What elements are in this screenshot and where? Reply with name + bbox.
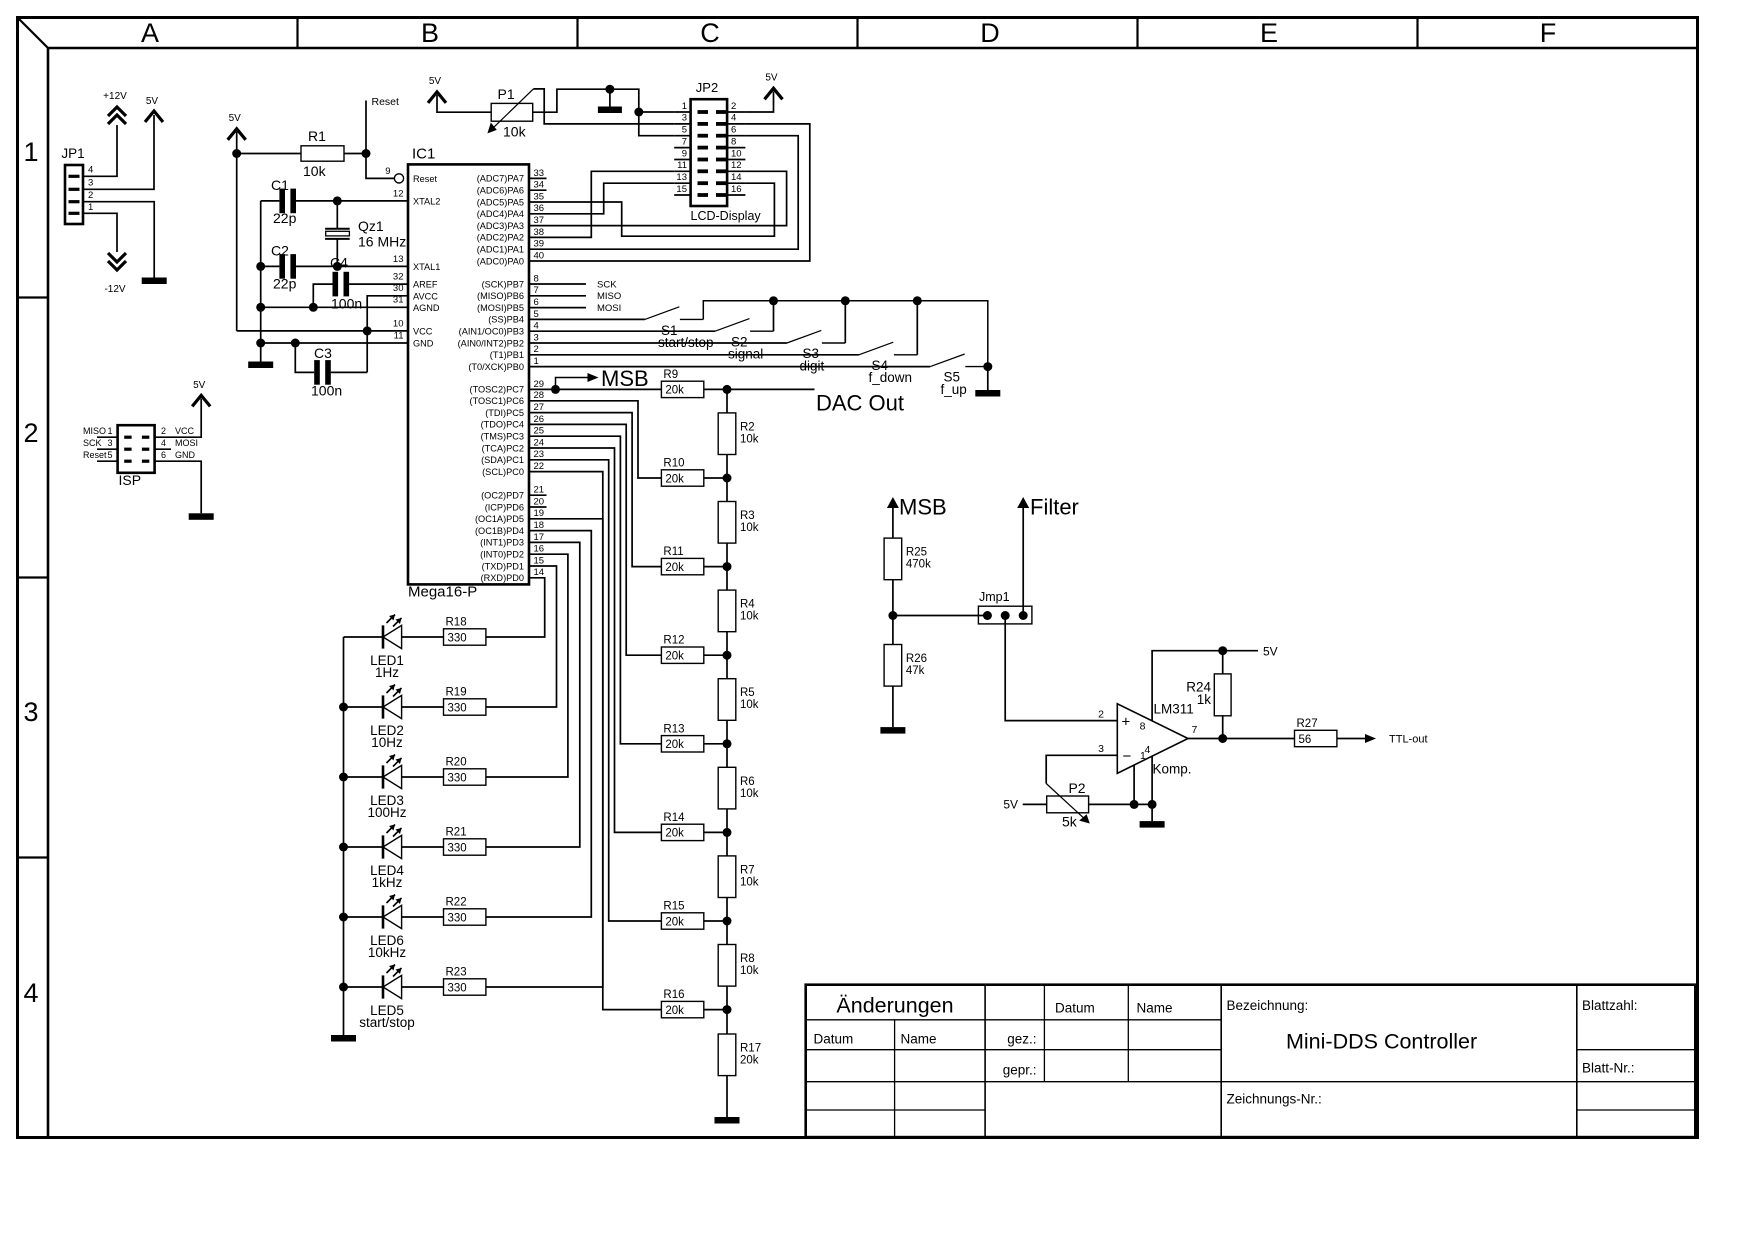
svg-text:6: 6 xyxy=(161,450,166,460)
connector JP1 xyxy=(65,165,83,224)
svg-text:330: 330 xyxy=(448,982,467,994)
wire PC3 to R13 xyxy=(529,436,661,744)
svg-text:24: 24 xyxy=(534,437,545,448)
svg-text:100Hz: 100Hz xyxy=(367,805,406,820)
svg-text:R21: R21 xyxy=(446,827,467,839)
svg-text:SCK: SCK xyxy=(597,279,617,290)
wire PB2 to S3 xyxy=(529,342,787,344)
wire S4 to bus xyxy=(916,301,918,355)
svg-text:14: 14 xyxy=(731,172,742,183)
wire Jmp1 pin2 to comparator + xyxy=(1005,616,1117,721)
node R1 left xyxy=(232,149,241,158)
svg-text:R12: R12 xyxy=(663,635,684,647)
svg-text:40: 40 xyxy=(534,250,545,261)
svg-text:VCC: VCC xyxy=(175,426,195,436)
svg-text:19: 19 xyxy=(534,508,545,519)
net arrow MSB right xyxy=(887,497,899,508)
svg-text:4: 4 xyxy=(88,165,93,176)
svg-text:A: A xyxy=(141,18,159,48)
svg-text:12: 12 xyxy=(731,160,742,171)
svg-text:Änderungen: Änderungen xyxy=(836,994,953,1018)
svg-text:20k: 20k xyxy=(665,651,684,663)
wire PC4 to R12 xyxy=(529,424,661,655)
svg-text:330: 330 xyxy=(448,632,467,644)
svg-text:10k: 10k xyxy=(740,876,759,888)
resistor R10 20k xyxy=(661,470,703,486)
wire R26 to ground xyxy=(892,686,894,727)
svg-text:6: 6 xyxy=(731,125,736,136)
wire R25 to node xyxy=(892,580,894,616)
svg-text:TTL-out: TTL-out xyxy=(1389,734,1428,746)
svg-text:+12V: +12V xyxy=(103,91,127,102)
wire PB4 to S1 xyxy=(529,318,645,320)
svg-text:1k: 1k xyxy=(1197,692,1212,707)
potentiometer P1 10k xyxy=(491,103,533,121)
svg-text:AVCC: AVCC xyxy=(413,291,438,301)
svg-text:(ADC6)PA6: (ADC6)PA6 xyxy=(477,186,524,196)
svg-text:1Hz: 1Hz xyxy=(375,665,399,680)
svg-text:7: 7 xyxy=(1192,724,1198,736)
svg-text:R16: R16 xyxy=(663,989,684,1001)
wire R27 to TTL-out xyxy=(1337,738,1365,740)
svg-text:XTAL1: XTAL1 xyxy=(413,262,440,272)
svg-text:AGND: AGND xyxy=(413,303,440,313)
svg-text:Datum: Datum xyxy=(814,1032,854,1047)
resistor R27 56 xyxy=(1295,730,1337,746)
svg-text:+: + xyxy=(1122,714,1131,731)
svg-text:3: 3 xyxy=(534,332,539,343)
svg-text:5V: 5V xyxy=(193,380,206,391)
wire 5V to P1 xyxy=(437,95,491,112)
svg-text:2: 2 xyxy=(731,101,736,112)
svg-text:(TXD)PD1: (TXD)PD1 xyxy=(482,561,524,571)
LED LED6 10kHz xyxy=(344,916,384,918)
svg-text:18: 18 xyxy=(534,520,545,531)
svg-text:C1: C1 xyxy=(271,177,289,193)
wire PC2 to R14 xyxy=(529,448,661,832)
wire R13 to ladder xyxy=(704,743,727,745)
node S5 xyxy=(983,362,992,371)
LED LED3 100Hz xyxy=(344,776,384,778)
svg-text:20: 20 xyxy=(534,496,545,507)
node ladder tap 0 xyxy=(723,385,732,394)
node ladder tap 6 xyxy=(723,917,732,926)
wire R15 to ladder xyxy=(704,920,727,922)
svg-text:gez.:: gez.: xyxy=(1007,1032,1036,1047)
svg-text:6: 6 xyxy=(534,297,539,308)
svg-text:20k: 20k xyxy=(665,562,684,574)
resistor R25 470k xyxy=(884,538,902,580)
svg-text:10: 10 xyxy=(393,318,404,329)
svg-text:B: B xyxy=(421,18,439,48)
wire PA5 to JP2 pin14 xyxy=(529,183,774,236)
svg-text:(TDI)PC5: (TDI)PC5 xyxy=(485,408,524,418)
net label Reset wire xyxy=(365,101,367,154)
svg-text:3: 3 xyxy=(88,178,93,189)
svg-text:34: 34 xyxy=(534,180,545,191)
svg-text:F: F xyxy=(1540,18,1557,48)
wire comparator pin8 to 5V xyxy=(1152,651,1258,721)
svg-text:R9: R9 xyxy=(663,369,678,381)
svg-text:14: 14 xyxy=(534,567,545,578)
svg-text:(T1)PB1: (T1)PB1 xyxy=(490,350,524,360)
svg-text:(ICP)PD6: (ICP)PD6 xyxy=(485,502,524,512)
wire R17 to ground xyxy=(726,1076,728,1117)
wire node to Jmp1 xyxy=(893,615,988,617)
wire to ground comparator xyxy=(1151,804,1153,821)
node ladder tap 2 xyxy=(723,562,732,571)
svg-text:(AIN1/OC0)PB3: (AIN1/OC0)PB3 xyxy=(459,327,524,337)
node VCC AVCC xyxy=(363,326,372,335)
node XTAL1 xyxy=(333,262,342,271)
svg-text:(RXD)PD0: (RXD)PD0 xyxy=(481,573,524,583)
switch S5 f_up xyxy=(930,354,964,367)
svg-text:MISO: MISO xyxy=(597,291,621,302)
svg-text:56: 56 xyxy=(1299,734,1312,746)
wire PA3 to JP2 pin12 xyxy=(529,171,787,225)
svg-text:10: 10 xyxy=(731,148,742,159)
wire S2 to bus xyxy=(773,301,775,331)
capacitor C3 100n xyxy=(295,343,314,372)
wire reset node to IC reset pin xyxy=(366,154,394,179)
svg-text:C2: C2 xyxy=(271,243,289,259)
node PC7 MSB xyxy=(551,385,560,394)
svg-text:(ADC2)PA2: (ADC2)PA2 xyxy=(477,233,524,243)
svg-text:5V: 5V xyxy=(1263,644,1278,658)
svg-text:15: 15 xyxy=(676,184,687,195)
resistor R19 330 xyxy=(402,706,444,708)
wire PB0 to S5 xyxy=(529,366,930,368)
svg-text:4: 4 xyxy=(731,113,736,124)
svg-text:5: 5 xyxy=(682,125,687,136)
switch S2 signal xyxy=(715,319,749,332)
svg-text:R6: R6 xyxy=(740,776,755,788)
svg-text:39: 39 xyxy=(534,239,545,250)
wire PA4 to JP2 pin13 xyxy=(529,183,674,214)
node LED bus xyxy=(339,703,348,712)
wire P2 to gnd nodes xyxy=(1089,803,1153,805)
svg-text:MOSI: MOSI xyxy=(175,438,198,448)
switch S1 start/stop xyxy=(645,307,679,320)
svg-text:4: 4 xyxy=(1145,744,1151,756)
svg-text:R7: R7 xyxy=(740,864,755,876)
wire 5V to R1 and VCC bus xyxy=(236,132,238,331)
5V symbol at P1 xyxy=(428,92,446,103)
svg-text:Blattzahl:: Blattzahl: xyxy=(1582,998,1638,1013)
wire R19 to PD1 xyxy=(486,566,557,707)
resistor R14 20k xyxy=(661,824,703,840)
5V symbol at JP1 xyxy=(145,111,163,122)
svg-text:R4: R4 xyxy=(740,599,755,611)
svg-text:5V: 5V xyxy=(765,73,778,84)
wire P1 wiper to JP2 pin3 xyxy=(533,89,674,124)
P1 wiper arrow xyxy=(492,89,534,130)
node ladder tap 3 xyxy=(723,651,732,660)
svg-text:P1: P1 xyxy=(498,86,515,102)
svg-text:28: 28 xyxy=(534,390,545,401)
resistor R15 20k xyxy=(661,913,703,929)
wire comparator - input xyxy=(1046,755,1117,783)
svg-text:(INT1)PD3: (INT1)PD3 xyxy=(480,538,524,548)
5V symbol near R1 xyxy=(228,129,246,140)
wire JP1 pin3 to 5V xyxy=(83,115,154,189)
node gnd stem top xyxy=(605,85,614,94)
svg-text:330: 330 xyxy=(448,912,467,924)
resistor R7 10k xyxy=(718,856,736,898)
ground comparator xyxy=(1140,821,1165,828)
svg-text:10k: 10k xyxy=(740,788,759,800)
title block horizontals xyxy=(806,1019,1221,1021)
svg-text:2: 2 xyxy=(23,418,38,448)
svg-text:4: 4 xyxy=(161,438,166,448)
svg-text:3: 3 xyxy=(108,438,113,448)
svg-text:10k: 10k xyxy=(740,433,759,445)
node divider xyxy=(888,611,897,620)
title block outer xyxy=(806,985,1696,1137)
svg-text:36: 36 xyxy=(534,203,545,214)
svg-text:3: 3 xyxy=(23,697,38,727)
svg-text:1kHz: 1kHz xyxy=(372,875,403,890)
svg-text:R8: R8 xyxy=(740,953,755,965)
ground at JP1 pin2 xyxy=(142,278,167,285)
svg-text:−: − xyxy=(1123,748,1132,765)
frame left band line xyxy=(47,48,50,1138)
svg-text:5k: 5k xyxy=(1062,814,1078,830)
-12V symbol xyxy=(108,253,126,270)
svg-text:33: 33 xyxy=(534,168,545,179)
resistor R16 20k xyxy=(661,1001,703,1017)
resistor R20 330 xyxy=(402,776,444,778)
wire PC5 to R11 xyxy=(529,413,661,567)
svg-text:GND: GND xyxy=(413,339,434,349)
svg-text:(MISO)PB6: (MISO)PB6 xyxy=(477,291,524,301)
svg-text:37: 37 xyxy=(534,215,545,226)
svg-text:R19: R19 xyxy=(446,687,467,699)
ground ISP xyxy=(189,513,214,520)
svg-text:10Hz: 10Hz xyxy=(371,735,403,750)
resistor R8 10k xyxy=(718,945,736,987)
svg-text:(OC2)PD7: (OC2)PD7 xyxy=(481,491,524,501)
ground near JP2 xyxy=(598,107,622,114)
svg-text:3: 3 xyxy=(682,113,687,124)
svg-text:AREF: AREF xyxy=(413,280,438,290)
svg-text:10k: 10k xyxy=(740,611,759,623)
frame corner diagonal xyxy=(18,18,49,49)
wire R22 to PD4 xyxy=(486,531,591,917)
svg-text:15: 15 xyxy=(534,555,545,566)
5V symbol at JP2 xyxy=(765,88,783,99)
svg-text:20k: 20k xyxy=(740,1055,759,1067)
svg-text:22p: 22p xyxy=(273,276,297,292)
svg-text:MSB: MSB xyxy=(899,495,947,520)
svg-text:330: 330 xyxy=(448,772,467,784)
svg-text:(T0/XCK)PB0: (T0/XCK)PB0 xyxy=(468,362,524,372)
ladder vertical wire xyxy=(726,389,728,1034)
svg-text:E: E xyxy=(1260,18,1278,48)
wire to R1 xyxy=(237,153,301,155)
svg-text:IC1: IC1 xyxy=(412,146,435,163)
svg-text:(TOSC2)PC7: (TOSC2)PC7 xyxy=(470,385,524,395)
svg-text:5: 5 xyxy=(108,450,113,460)
svg-text:13: 13 xyxy=(676,172,687,183)
node ladder tap 4 xyxy=(723,739,732,748)
svg-text:7: 7 xyxy=(534,285,539,296)
node JP2 pin1 gnd xyxy=(634,108,643,117)
svg-text:32: 32 xyxy=(393,272,404,283)
svg-text:20k: 20k xyxy=(665,473,684,485)
svg-text:Name: Name xyxy=(901,1032,937,1047)
svg-text:100n: 100n xyxy=(331,296,362,312)
svg-text:JP1: JP1 xyxy=(61,146,84,161)
wire ISP VCC to 5V xyxy=(155,399,202,438)
svg-text:(SDA)PC1: (SDA)PC1 xyxy=(481,455,524,465)
frame row dividers xyxy=(18,296,49,298)
svg-text:Komp.: Komp. xyxy=(1153,762,1192,777)
node GND C3 xyxy=(291,339,300,348)
svg-text:Qz1: Qz1 xyxy=(358,218,384,234)
svg-text:R13: R13 xyxy=(663,723,684,735)
svg-text:22: 22 xyxy=(534,461,545,472)
svg-text:Blatt-Nr.:: Blatt-Nr.: xyxy=(1582,1061,1635,1076)
wire R16 to ladder xyxy=(704,1009,727,1011)
node S4 bus xyxy=(913,296,922,305)
svg-text:(SCL)PC0: (SCL)PC0 xyxy=(482,467,524,477)
TTL-out arrow xyxy=(1365,734,1376,743)
svg-text:LCD-Display: LCD-Display xyxy=(691,209,762,223)
svg-text:R22: R22 xyxy=(446,897,467,909)
resistor R12 20k xyxy=(661,647,703,663)
node XTAL2 xyxy=(333,196,342,205)
svg-text:25: 25 xyxy=(534,426,545,437)
node output xyxy=(1218,734,1227,743)
wire PB3 to S2 xyxy=(529,330,715,332)
wire R24 to output xyxy=(1222,716,1224,739)
wire AGND row xyxy=(261,306,408,308)
svg-text:Datum: Datum xyxy=(1055,1001,1095,1016)
svg-text:10k: 10k xyxy=(303,163,327,179)
svg-text:D: D xyxy=(980,18,1000,48)
svg-text:R1: R1 xyxy=(308,128,326,144)
wire MOSI stub xyxy=(529,307,586,309)
svg-text:JP2: JP2 xyxy=(696,80,718,95)
wire AVCC jog xyxy=(367,296,408,373)
connector JP2 LCD-Display xyxy=(691,99,728,206)
svg-text:C3: C3 xyxy=(314,345,332,361)
resistor R23 330 xyxy=(402,986,444,988)
wire S5 to ground xyxy=(987,367,989,390)
frame header band line xyxy=(48,47,1698,50)
svg-text:(OC1A)PD5: (OC1A)PD5 xyxy=(475,514,524,524)
resistor R24 1k xyxy=(1222,651,1224,674)
wire PC1 to R15 xyxy=(529,460,661,921)
svg-text:330: 330 xyxy=(448,842,467,854)
svg-text:R2: R2 xyxy=(740,421,755,433)
svg-text:C4: C4 xyxy=(330,255,348,271)
svg-text:29: 29 xyxy=(534,379,545,390)
svg-text:5V: 5V xyxy=(229,113,242,124)
wire R1 right to reset node xyxy=(344,153,366,155)
svg-text:R23: R23 xyxy=(446,967,467,979)
svg-text:SCK: SCK xyxy=(83,438,102,448)
svg-text:(TCA)PC2: (TCA)PC2 xyxy=(482,443,524,453)
svg-text:21: 21 xyxy=(534,485,545,496)
svg-text:9: 9 xyxy=(385,166,390,177)
wire R9 to ladder xyxy=(704,388,727,390)
wire R18 to PD0 xyxy=(486,578,545,637)
svg-text:10k: 10k xyxy=(503,124,527,140)
svg-text:8: 8 xyxy=(534,273,539,284)
svg-text:R11: R11 xyxy=(663,546,683,558)
node LED bus xyxy=(339,913,348,922)
potentiometer P2 5k xyxy=(1047,796,1089,813)
svg-text:R27: R27 xyxy=(1297,718,1318,730)
svg-text:5V: 5V xyxy=(1003,798,1018,812)
P2 wiper arrow xyxy=(1046,784,1086,821)
node R24 top xyxy=(1218,646,1227,655)
svg-text:47k: 47k xyxy=(906,665,925,677)
svg-text:1: 1 xyxy=(108,426,113,436)
frame column dividers xyxy=(296,18,298,49)
svg-text:1: 1 xyxy=(682,101,687,112)
svg-text:R15: R15 xyxy=(663,901,684,913)
resistor R22 330 xyxy=(402,916,444,918)
wire SCK stub xyxy=(529,283,586,285)
svg-text:Filter: Filter xyxy=(1030,495,1079,520)
resistor R13 20k xyxy=(661,736,703,752)
resistor R2 10k xyxy=(718,413,736,455)
svg-text:gepr.:: gepr.: xyxy=(1003,1063,1037,1078)
switch S4 f_down xyxy=(859,342,893,355)
wire PC6 to R10 xyxy=(529,401,661,478)
svg-text:(INT0)PD2: (INT0)PD2 xyxy=(480,550,524,560)
reset inversion circle xyxy=(394,174,403,183)
IC U1 Mega16-P box xyxy=(408,164,529,584)
node reset xyxy=(362,149,371,158)
svg-text:VCC: VCC xyxy=(413,327,433,337)
svg-text:(OC1B)PD4: (OC1B)PD4 xyxy=(475,526,524,536)
svg-text:2: 2 xyxy=(161,426,166,436)
svg-text:Mini-DDS Controller: Mini-DDS Controller xyxy=(1286,1030,1477,1054)
jumper Jmp1 xyxy=(978,606,1032,624)
svg-text:f_up: f_up xyxy=(941,382,967,397)
svg-text:16: 16 xyxy=(534,544,545,555)
svg-text:11: 11 xyxy=(677,160,687,171)
node AGND C4 xyxy=(309,303,318,312)
svg-text:1: 1 xyxy=(88,202,93,213)
ground ladder xyxy=(715,1117,740,1124)
wire ISP MOSI stub xyxy=(155,448,171,450)
svg-text:10k: 10k xyxy=(740,699,759,711)
wire PC7 to R9 xyxy=(529,388,661,390)
svg-text:(ADC4)PA4: (ADC4)PA4 xyxy=(477,209,524,219)
svg-text:MISO: MISO xyxy=(83,426,106,436)
svg-text:20k: 20k xyxy=(665,385,684,397)
wire XTAL1 to IC pin13 xyxy=(337,265,408,267)
svg-text:(ADC3)PA3: (ADC3)PA3 xyxy=(477,221,524,231)
wire JP1 pin2 to ground xyxy=(83,202,154,278)
svg-text:Reset: Reset xyxy=(413,174,437,184)
resistor R9 20k xyxy=(661,381,703,397)
svg-text:Mega16-P: Mega16-P xyxy=(408,584,477,601)
svg-text:GND: GND xyxy=(175,450,196,460)
svg-text:20k: 20k xyxy=(665,1005,684,1017)
svg-text:330: 330 xyxy=(448,702,467,714)
wire R10 to ladder xyxy=(704,477,727,479)
wire MISO stub xyxy=(529,295,586,297)
svg-text:4: 4 xyxy=(23,978,38,1008)
svg-text:ISP: ISP xyxy=(119,472,142,488)
node S2 bus xyxy=(769,296,778,305)
